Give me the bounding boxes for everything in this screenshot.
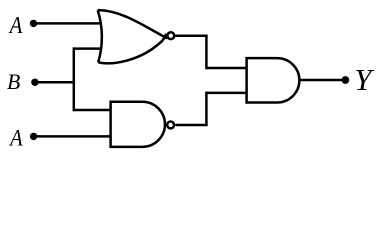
AND gate U3 body [247,58,300,102]
NOR gate U1 bottom wing stroke [98,34,166,63]
NAND gate U2 body [111,102,165,147]
svg-text:B: B [7,70,20,94]
wire NOR output horizontal [176,34,208,37]
NOR gate U1 back arc [98,10,102,62]
node dot input A1 [30,20,37,27]
wire B to branch node [35,81,75,84]
wire riser to AND bottom input [206,92,246,95]
wire A1 to NOR top input [34,22,103,25]
svg-text:A: A [8,125,23,151]
NOR gate U1 top wing stroke [98,10,168,38]
node dot input A2 [30,133,37,140]
wire A2 to NAND bottom input [34,135,111,138]
wire AND output to Y [298,79,345,82]
wire branch to NOR lower input [74,47,102,50]
wire branch vertical [73,47,76,111]
NAND gate U2 bubble [167,121,174,128]
wire NOR output riser down [205,36,208,70]
node dot input B [31,79,38,86]
wire riser to AND top input [206,67,246,70]
wire NAND output riser up [205,92,208,125]
wire NAND output horizontal [175,124,207,127]
wire branch to NAND top input [74,109,111,112]
NOR gate U1 bubble [167,32,174,39]
svg-text:Y: Y [354,62,374,97]
svg-text:A: A [8,13,23,39]
node dot output Y [342,76,350,84]
